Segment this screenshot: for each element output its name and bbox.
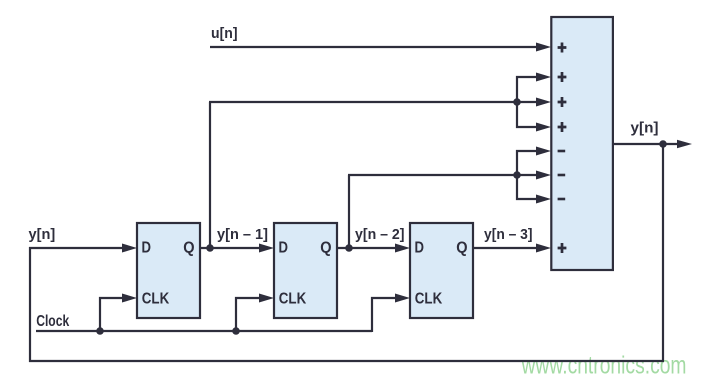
wire y[n-2] feedback vertical xyxy=(348,175,350,248)
svg-text:D: D xyxy=(142,240,152,257)
summing block U1 xyxy=(551,17,613,270)
wire Q of U4 to summing block xyxy=(473,247,540,249)
flip-flop U3 (D flip-flop 2) xyxy=(274,223,337,318)
summing block sign + input 4 xyxy=(558,122,567,132)
arrowhead into CLK of U2 xyxy=(122,294,137,303)
arrowhead into D of U3 xyxy=(259,244,274,253)
svg-text:y[n]: y[n] xyxy=(29,226,56,243)
wire Q of U3 to D of U4 xyxy=(337,247,399,249)
wire y[n] feedback right vertical xyxy=(662,144,664,361)
summing block sign + input 1 xyxy=(558,43,567,53)
arrowhead minus lower xyxy=(536,195,551,204)
wire minus branch middle xyxy=(517,174,540,176)
summing block sign - input 5 xyxy=(558,150,566,153)
summing block sign - input 6 xyxy=(558,174,566,177)
wire minus branch lower xyxy=(517,175,540,199)
wire clock to CLK of U2 xyxy=(100,298,126,332)
wire Clock bus xyxy=(36,330,372,332)
wire clock to CLK of U4 xyxy=(372,298,399,332)
node clock junction 2 xyxy=(232,327,240,335)
node clock junction 1 xyxy=(96,327,104,335)
wire y[n-1] feedback horizontal xyxy=(209,101,517,103)
flip-flop U2 (D flip-flop 1) xyxy=(137,223,200,318)
svg-text:Q: Q xyxy=(456,240,467,257)
arrowhead into D of U2 xyxy=(122,244,137,253)
wire y[n-1] feedback vertical xyxy=(209,102,211,248)
summing block sign + input 3 xyxy=(558,97,567,107)
arrowhead plus middle xyxy=(536,98,551,107)
arrowhead u[n] into summing block xyxy=(536,43,551,52)
arrowhead plus upper xyxy=(536,73,551,82)
svg-text:y[n – 3]: y[n – 3] xyxy=(484,226,533,243)
summing block sign - input 7 xyxy=(558,198,566,201)
wire Q of U2 to D of U3 xyxy=(200,247,263,249)
summing block sign + input 8 xyxy=(558,243,567,253)
arrowhead into CLK of U3 xyxy=(259,294,274,303)
wire y[n] into D of U2 xyxy=(29,247,126,249)
arrowhead into CLK of U4 xyxy=(395,294,410,303)
arrowhead minus middle xyxy=(536,171,551,180)
wire u[n] input xyxy=(210,46,540,48)
svg-text:www.cntronics.com: www.cntronics.com xyxy=(521,352,687,380)
wire minus branch upper xyxy=(517,151,540,175)
svg-text:Clock: Clock xyxy=(36,313,69,330)
wire y[n] feedback left vertical xyxy=(29,247,31,362)
node plus-branch junction xyxy=(513,98,521,106)
arrowhead minus upper xyxy=(536,147,551,156)
arrowhead y[n] output xyxy=(677,140,692,149)
node y[n-2] junction xyxy=(345,244,353,252)
arrowhead into D of U4 xyxy=(395,244,410,253)
flip-flop U4 (D flip-flop 3) xyxy=(410,223,473,318)
svg-text:y[n]: y[n] xyxy=(631,120,659,137)
node minus-branch junction xyxy=(513,171,521,179)
svg-text:u[n]: u[n] xyxy=(211,25,238,42)
node y[n] output junction xyxy=(659,140,667,148)
node y[n-1] junction xyxy=(206,244,214,252)
svg-text:CLK: CLK xyxy=(415,291,443,308)
arrowhead y[n-3] into summing block xyxy=(536,244,551,253)
wire plus branch middle xyxy=(517,101,540,103)
wire clock to CLK of U3 xyxy=(236,298,263,332)
svg-text:CLK: CLK xyxy=(142,291,170,308)
wire y[n] feedback bottom horizontal xyxy=(29,360,664,362)
svg-text:Q: Q xyxy=(320,240,331,257)
summing block sign + input 2 xyxy=(558,72,567,82)
wire y[n-2] feedback horizontal xyxy=(348,174,517,176)
svg-text:CLK: CLK xyxy=(279,291,307,308)
wire y[n] output of summing block xyxy=(612,143,681,145)
wire plus branch lower xyxy=(517,102,540,127)
wire plus branch upper xyxy=(517,77,540,102)
svg-text:D: D xyxy=(279,240,289,257)
arrowhead plus lower xyxy=(536,123,551,132)
svg-text:D: D xyxy=(415,240,425,257)
svg-text:y[n – 1]: y[n – 1] xyxy=(217,226,268,243)
svg-text:Q: Q xyxy=(183,240,194,257)
svg-text:y[n – 2]: y[n – 2] xyxy=(355,226,405,243)
